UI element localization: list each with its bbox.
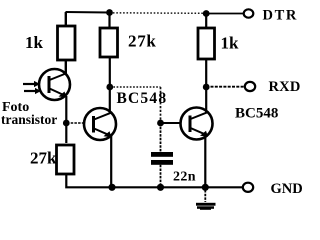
- svg-text:RXD: RXD: [269, 79, 301, 95]
- svg-text:transistor: transistor: [1, 112, 57, 127]
- svg-text:1k: 1k: [221, 34, 240, 53]
- svg-text:22n: 22n: [173, 170, 196, 185]
- svg-text:1k: 1k: [25, 33, 44, 52]
- svg-text:27k: 27k: [128, 32, 157, 51]
- svg-text:BC548: BC548: [117, 90, 168, 107]
- svg-text:DTR: DTR: [263, 8, 298, 24]
- svg-text:GND: GND: [271, 181, 303, 197]
- svg-text:27k: 27k: [30, 149, 57, 168]
- svg-text:BC548: BC548: [235, 106, 278, 122]
